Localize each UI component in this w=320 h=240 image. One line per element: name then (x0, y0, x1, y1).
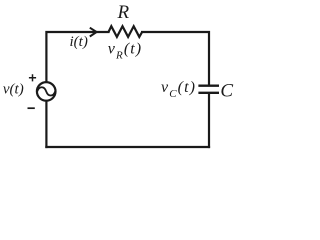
plus sign (29, 74, 36, 81)
capacitor C bottom plate (198, 92, 219, 94)
wire bottom-left: corner up to source bottom (45, 101, 47, 147)
capacitor C top plate (198, 85, 219, 87)
voltage source sine wave (37, 87, 55, 95)
svg-text:vR(t): vR(t) (108, 41, 142, 62)
voltage source circle (37, 82, 56, 101)
wire top-right: resistor to corner and down to capacitor (142, 32, 209, 85)
minus sign (28, 107, 35, 109)
svg-text:vC(t): vC(t) (161, 79, 196, 100)
svg-text:v(t): v(t) (3, 82, 24, 98)
svg-text:R: R (117, 2, 130, 23)
wire top-left: from source top up and right to resistor (46, 32, 108, 82)
svg-text:C: C (220, 81, 233, 102)
wire bottom (46, 146, 209, 148)
svg-text:i(t): i(t) (70, 34, 88, 50)
current arrow i(t) (90, 28, 97, 37)
wire bottom-right: capacitor down to corner (208, 94, 210, 147)
resistor R (109, 26, 143, 37)
